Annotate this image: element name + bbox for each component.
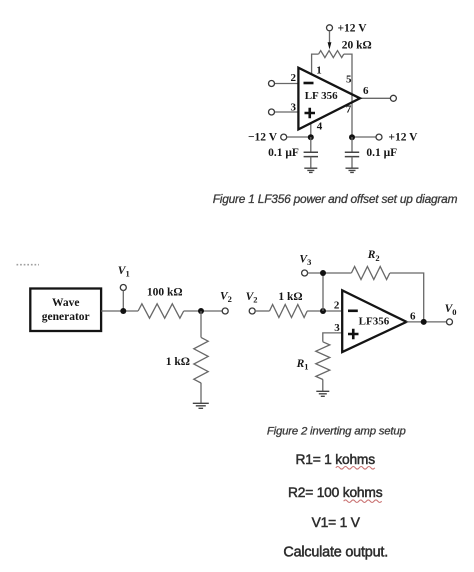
wire 1k to pin2 — [307, 310, 342, 312]
wire pin3 input — [275, 111, 299, 113]
wire down to 1k — [200, 311, 202, 337]
resistor R1 vertical zigzag — [316, 342, 330, 380]
-12V terminal — [281, 134, 287, 140]
wave generator box — [30, 289, 101, 332]
wire output to V0 — [407, 321, 447, 323]
capacitor C1 bottom lead — [310, 157, 312, 168]
V1 terminal — [120, 285, 126, 291]
resistor R2 zigzag — [351, 267, 389, 280]
ground (fig2 left) — [193, 403, 209, 408]
minus sign (inverting input) — [304, 82, 314, 85]
wire 1k to ground — [200, 383, 202, 403]
wire V1 stem — [122, 291, 124, 312]
pin2 terminal — [269, 81, 275, 87]
node junction feedback — [320, 308, 326, 314]
+12V terminal (right) — [376, 134, 382, 140]
ground (left, fig1) — [304, 168, 317, 172]
node junction V3 — [320, 270, 326, 276]
ground (right, fig1) — [346, 168, 359, 172]
squiggle under kohms (R2) — [344, 500, 382, 503]
node junction pin4/cap — [308, 134, 314, 140]
op-amp U1 triangle LF 356 — [298, 68, 360, 130]
plus sign (fig2) — [348, 329, 359, 340]
potentiometer 20k zigzag — [319, 51, 344, 58]
wire pot right lead down to +12V rail (pins 5,7) — [344, 54, 352, 137]
node junction V1 — [120, 308, 126, 314]
capacitor C2 0.1uF lead — [351, 137, 353, 152]
node junction V2 — [198, 308, 204, 314]
+12V rail wire — [352, 136, 376, 138]
wire output pin6 — [360, 97, 390, 99]
output terminal — [390, 95, 396, 101]
op-amp U2 triangle LF356 — [342, 290, 406, 352]
resistor 1k vertical zigzag — [194, 337, 208, 383]
wire wiper arrow stem — [329, 31, 331, 44]
capacitor C1 plates — [304, 152, 318, 156]
V3 terminal — [302, 270, 308, 276]
wire V2 to 1k — [255, 310, 269, 312]
-12V rail wire — [287, 136, 311, 138]
plus sign (non-inverting input) — [305, 108, 316, 119]
ground (fig2 right) — [316, 391, 329, 396]
wire pin2 input — [275, 83, 299, 85]
wire feedback riser — [322, 273, 324, 311]
node junction pin7/cap — [349, 134, 355, 140]
stray dotted mark — [17, 264, 40, 266]
wire R2 to output node — [390, 273, 424, 322]
wire pin4 down to -12V rail — [310, 123, 312, 137]
node junction output — [421, 319, 427, 325]
wire box output — [101, 310, 138, 312]
wire resistor to node — [184, 310, 223, 312]
V2 terminal (stage1) — [222, 308, 228, 314]
capacitor C2 plates — [345, 152, 359, 156]
resistor 1k (stage2) zigzag — [270, 305, 308, 318]
V0 terminal — [447, 319, 453, 325]
squiggle under kohms (R1) — [336, 467, 375, 470]
wire pin3 to R1 — [323, 333, 342, 342]
wire V3 to node — [308, 272, 352, 274]
wire pot left lead — [312, 54, 319, 74]
pin3 terminal — [269, 109, 275, 115]
+12V terminal (top, pot wiper supply) — [327, 25, 333, 31]
wiper arrowhead — [328, 42, 332, 49]
resistor 100k zigzag — [138, 304, 184, 318]
capacitor C1 0.1uF lead — [310, 137, 312, 152]
capacitor C2 bottom lead — [351, 157, 353, 168]
V2 terminal (stage2 input) — [249, 308, 255, 314]
wire R1 to ground — [322, 379, 324, 391]
minus sign (fig2) — [348, 309, 358, 312]
